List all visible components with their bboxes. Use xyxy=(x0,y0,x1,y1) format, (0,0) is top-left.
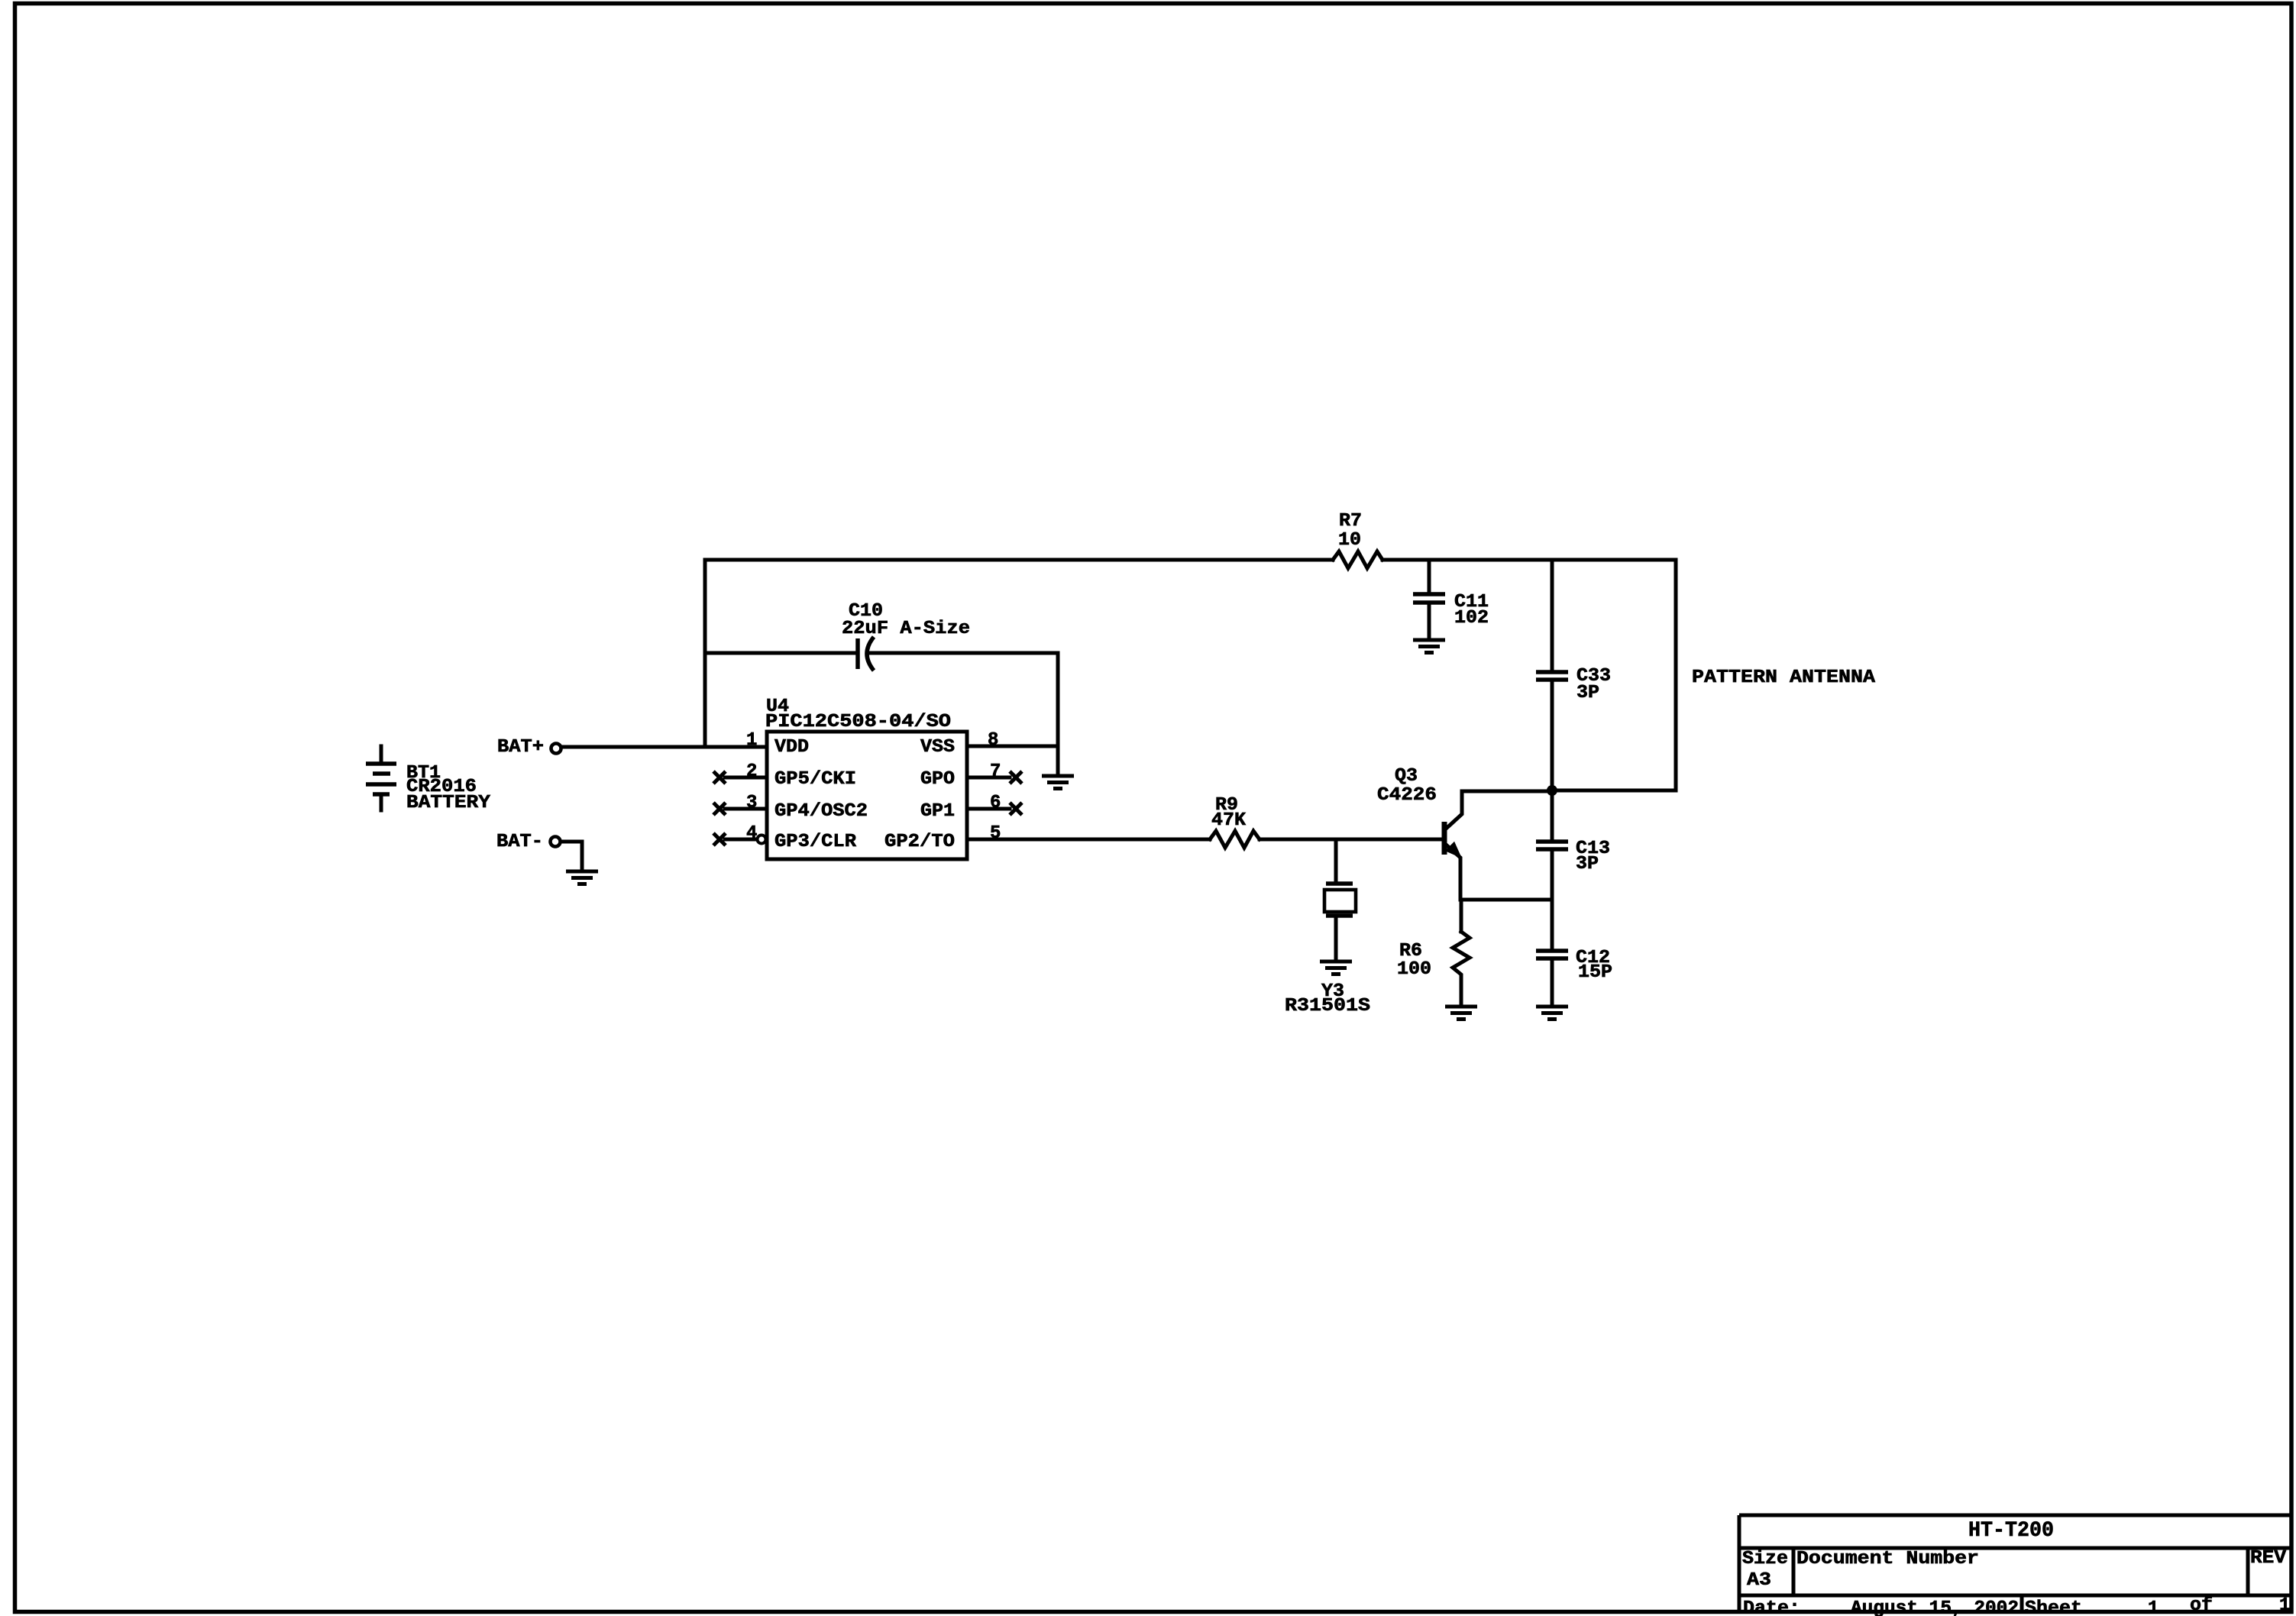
svg-text:47K: 47K xyxy=(1211,810,1247,831)
svg-text:HT-T200: HT-T200 xyxy=(1968,1519,2054,1543)
svg-text:Size: Size xyxy=(1742,1549,1788,1569)
svg-text:3P: 3P xyxy=(1576,683,1599,703)
svg-text:Sheet: Sheet xyxy=(2025,1598,2082,1616)
svg-text:2: 2 xyxy=(746,761,757,782)
svg-text:GP2/TO: GP2/TO xyxy=(884,832,955,852)
svg-text:7: 7 xyxy=(990,761,1001,782)
svg-text:PIC12C508-04/SO: PIC12C508-04/SO xyxy=(765,712,951,732)
svg-text:Document Number: Document Number xyxy=(1796,1549,1979,1569)
svg-text:GP1: GP1 xyxy=(920,801,955,822)
svg-text:VDD: VDD xyxy=(774,737,809,758)
svg-text:6: 6 xyxy=(990,793,1001,813)
svg-text:VSS: VSS xyxy=(920,737,955,758)
svg-text:R7: R7 xyxy=(1339,511,1362,532)
svg-text:GP3/CLR: GP3/CLR xyxy=(774,832,857,852)
svg-text:Date:: Date: xyxy=(1743,1598,1800,1616)
svg-text:Q3: Q3 xyxy=(1395,766,1418,787)
svg-text:REV: REV xyxy=(2250,1548,2287,1569)
svg-text:102: 102 xyxy=(1454,608,1489,629)
svg-text:BATTERY: BATTERY xyxy=(406,793,491,813)
svg-text:GPO: GPO xyxy=(920,769,955,790)
svg-text:of: of xyxy=(2190,1595,2213,1616)
svg-text:1: 1 xyxy=(2279,1595,2290,1616)
svg-text:GP4/OSC2: GP4/OSC2 xyxy=(774,801,868,822)
svg-text:1: 1 xyxy=(746,730,757,751)
svg-text:3P: 3P xyxy=(1576,854,1599,874)
svg-text:August 15, 2002: August 15, 2002 xyxy=(1851,1598,2019,1616)
svg-text:R31501S: R31501S xyxy=(1285,996,1370,1016)
svg-text:4: 4 xyxy=(746,823,757,844)
svg-text:R6: R6 xyxy=(1399,941,1422,962)
svg-text:C4226: C4226 xyxy=(1377,785,1437,806)
svg-text:BAT-: BAT- xyxy=(496,832,543,852)
svg-text:10: 10 xyxy=(1338,530,1361,551)
svg-text:100: 100 xyxy=(1397,959,1431,980)
svg-text:BAT+: BAT+ xyxy=(497,737,544,758)
svg-text:1: 1 xyxy=(2148,1598,2159,1616)
svg-text:8: 8 xyxy=(988,730,998,751)
svg-text:3: 3 xyxy=(746,793,757,813)
svg-text:5: 5 xyxy=(990,823,1001,844)
svg-text:15P: 15P xyxy=(1578,962,1612,983)
svg-text:PATTERN ANTENNA: PATTERN ANTENNA xyxy=(1692,667,1876,688)
svg-text:GP5/CKI: GP5/CKI xyxy=(774,769,856,790)
svg-text:A3: A3 xyxy=(1747,1570,1771,1591)
svg-text:22uF A-Size: 22uF A-Size xyxy=(842,619,970,639)
